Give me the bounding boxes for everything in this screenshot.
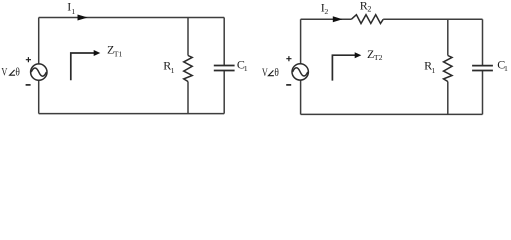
svg-text:T2: T2 — [374, 53, 383, 62]
svg-text:1: 1 — [71, 7, 75, 16]
svg-text:V: V — [262, 65, 268, 79]
svg-text:1: 1 — [504, 64, 508, 73]
svg-text:2: 2 — [367, 5, 371, 14]
svg-text:θ: θ — [274, 65, 279, 79]
svg-text:θ: θ — [15, 64, 20, 78]
svg-text:1: 1 — [432, 66, 436, 75]
svg-text:2: 2 — [324, 7, 328, 16]
svg-text:1: 1 — [244, 64, 248, 73]
svg-text:T1: T1 — [114, 50, 123, 59]
svg-text:1: 1 — [171, 66, 175, 75]
svg-text:V: V — [1, 64, 7, 78]
